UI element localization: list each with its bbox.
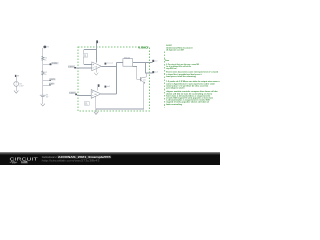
wire branch 1 [43,64,50,66]
wire (op-amp1 output) [101,66,116,68]
ground (op-amp U1 negative pin) [94,69,98,76]
ground [41,104,45,106]
net flag VIN (far-left source) [15,75,20,78]
svg-text:1.6V: 1.6V [49,83,54,85]
wire (block output top) [133,63,153,73]
wire (vertical joining bus) [115,63,117,95]
svg-text:2.5V: 2.5V [19,86,24,88]
wire (into block) [116,62,123,64]
node flag 2 [49,80,51,82]
svg-text:1k: 1k [44,59,46,61]
wire (flag pole to op-amp2 top) [97,87,99,91]
wire [15,77,17,82]
resistor R2 [42,71,48,76]
svg-text:Q1: Q1 [143,80,146,82]
net flag (top, into box) [96,40,100,43]
svg-text:lado controling: lado controling [166,103,183,106]
node flag 3 [49,84,51,86]
svg-text:juist alignes wacht: juist alignes wacht [165,87,184,90]
battery V1 [40,95,49,99]
block U3 [123,58,133,67]
wire [42,60,44,71]
op-amp U1 [92,62,102,71]
voltage label box 2 [49,78,55,81]
wire (block output bottom, to transistor base) [133,67,141,80]
voltage source V2 [14,82,24,88]
wire (emitter down and left) [144,83,145,108]
net flag OUT2 (right, lower) [152,71,158,74]
dashed subcircuit box [78,47,150,111]
wire [83,49,85,53]
green label on box top edge [138,45,148,49]
svg-text:0.8kΩ: 0.8kΩ [138,45,148,49]
ground (below box) [94,112,98,115]
wire (to - input) [76,67,92,69]
note dashed border [164,52,166,109]
wire (op-amp2 bottom pin) [95,96,97,109]
svg-text:Time: Time [165,60,170,62]
wire (to flag1) [146,62,153,64]
node flag 1 [50,63,52,65]
wire [42,96,44,104]
wire branch 3 [43,84,49,86]
svg-text:all digestive over 007: all digestive over 007 [166,49,185,52]
wire (bottom rail) [96,108,144,109]
net flag OUT1 (on op-amp1 output) [105,62,114,65]
voltage label box 1 [51,62,58,65]
wire [42,48,44,56]
wire (to op-amp2 minus input) [77,95,91,97]
svg-text:http://circuitlab.com/cwc573c3: http://circuitlab.com/cwc573c38b43 [42,158,101,162]
voltage label box 3 [49,83,55,86]
net flag (above op-amp U2) [98,84,100,87]
svg-text:LAB: LAB [22,160,28,164]
svg-text:1.33V: 1.33V [69,93,75,95]
CircuitLab logo [10,156,38,164]
svg-text:2.33V: 2.33V [52,63,58,65]
transistor Q1 [141,77,147,83]
small component box (83.6,53.6) [83,54,87,59]
wire (horizontal tee) [84,48,97,50]
ground [14,91,18,94]
wire [15,86,17,91]
net flag VCC (top of resistor chain) [43,46,49,49]
op-amp U2 [91,90,101,99]
wire (collector feed) [145,73,147,77]
wire [83,57,85,64]
svg-text:lead press itself for releasin: lead press itself for releasing [166,75,196,78]
wire [42,75,44,95]
input label box (left of op-amp U1) [68,65,76,68]
note text (green annotation) [165,45,221,106]
wire (op-amp2 output) [101,93,117,95]
input label box (left of op-amp U2) [69,92,77,96]
resistor R1 [42,56,48,61]
net flag OUT (right, upper) [152,59,157,62]
small label box (below op-amp U2) [85,102,90,107]
svg-text:step NSO vol: step NSO vol [166,67,177,70]
svg-text:1.67V: 1.67V [50,79,56,81]
wire (to + input) [84,64,92,66]
svg-text:out: out [155,59,158,62]
net flag label (op-amp U2) [105,86,111,89]
wire branch 2 [43,80,49,82]
svg-text:1.67V: 1.67V [68,66,74,68]
wire (flag pole down to op-amp) [96,43,98,62]
svg-text:1k: 1k [44,74,46,76]
caption line 1 [57,155,111,158]
svg-text:out_a1: out_a1 [107,62,114,65]
